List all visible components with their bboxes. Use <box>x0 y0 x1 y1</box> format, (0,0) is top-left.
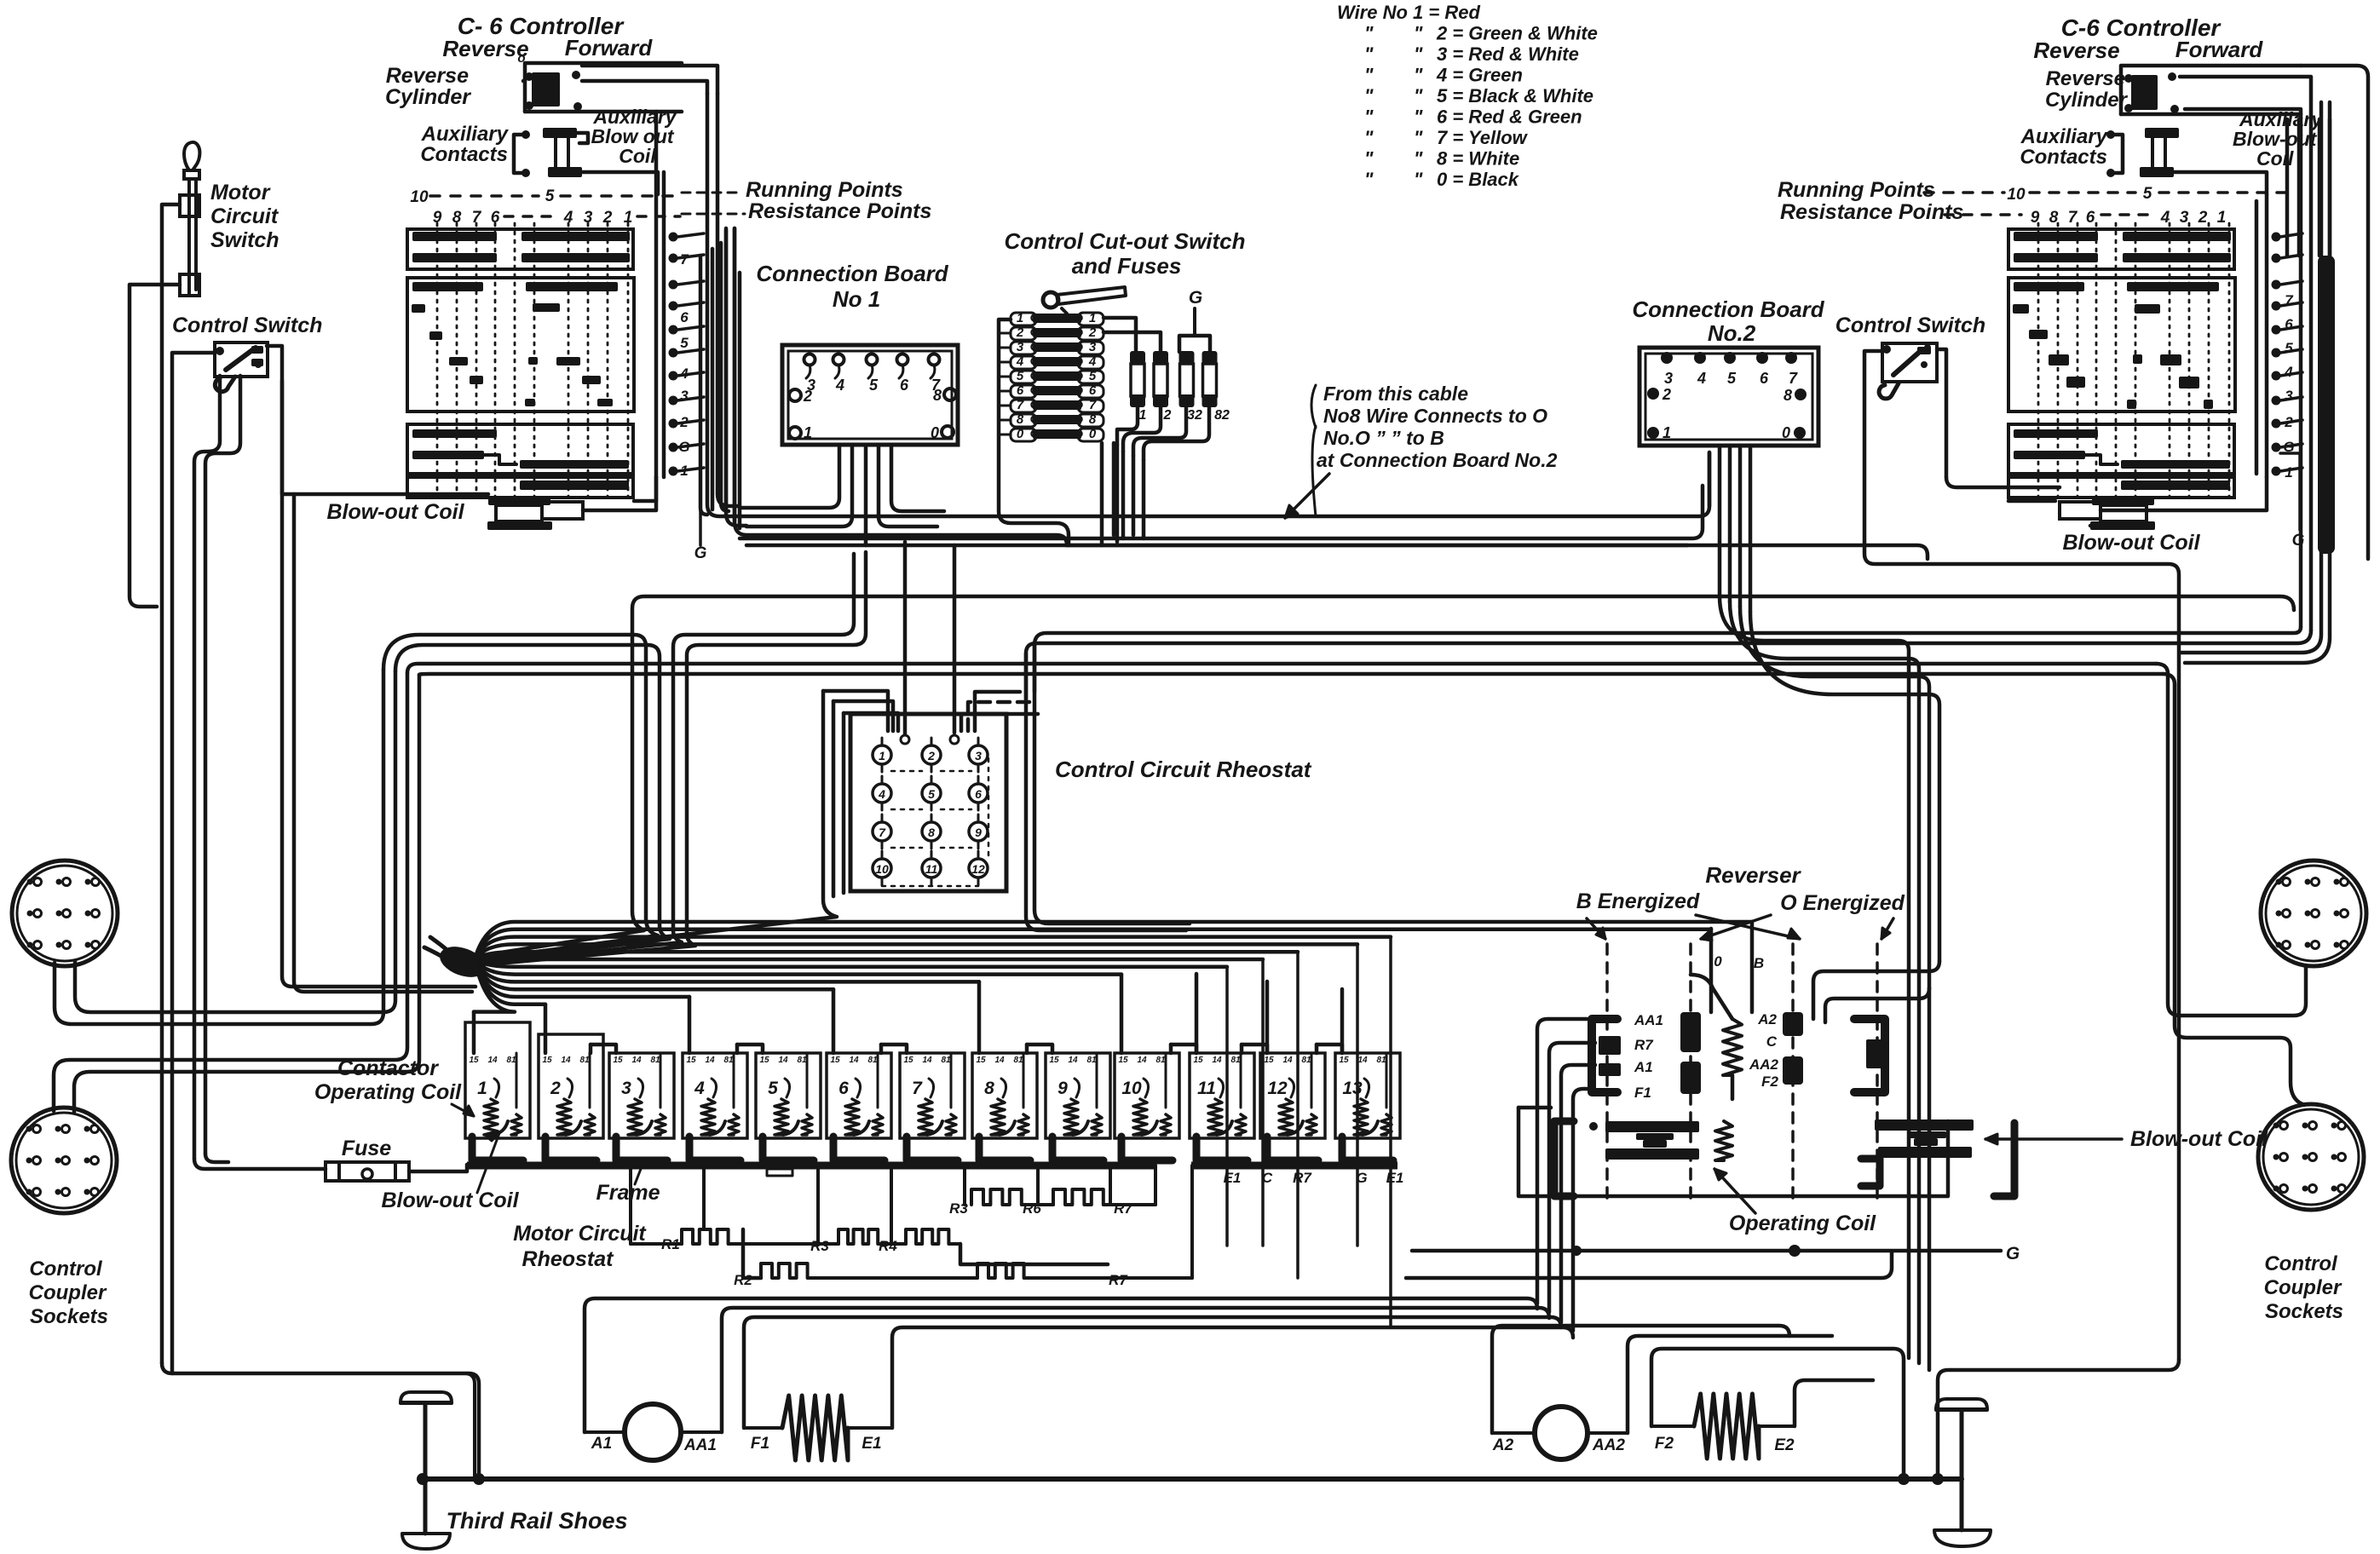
svg-text:No.2: No.2 <box>1708 320 1756 346</box>
svg-text:14: 14 <box>1282 1056 1293 1065</box>
svg-text:B: B <box>1754 955 1764 971</box>
svg-text:15: 15 <box>1049 1056 1059 1065</box>
control cable fan to contactors <box>474 922 1752 1012</box>
svg-text:": " <box>1414 169 1423 190</box>
wire from reverse cylinder to trunk (top) <box>582 66 717 94</box>
svg-text:Resistance Points: Resistance Points <box>748 199 931 223</box>
controller main contact box <box>407 278 634 412</box>
svg-text:14: 14 <box>1357 1056 1368 1065</box>
svg-text:": " <box>1364 106 1374 128</box>
svg-text:6: 6 <box>1089 383 1097 398</box>
svg-text:5: 5 <box>1727 370 1737 387</box>
wire motor switch upper clamp to left bus <box>162 204 180 1363</box>
wires cable to rheostat terminals <box>903 542 908 734</box>
svg-text:R7: R7 <box>1293 1170 1312 1186</box>
contactor 7 <box>900 1053 965 1160</box>
right controller bottom wires <box>1946 477 2060 487</box>
svg-text:1: 1 <box>804 424 812 441</box>
svg-text:1: 1 <box>1139 408 1147 423</box>
svg-text:6: 6 <box>838 1079 849 1098</box>
wire blow-out coil to frame <box>583 477 656 510</box>
main fuse <box>326 1137 409 1181</box>
svg-text:C: C <box>1766 1033 1778 1050</box>
svg-text:": " <box>1414 85 1423 106</box>
svg-text:Control: Control <box>2264 1252 2338 1275</box>
svg-text:4: 4 <box>694 1079 705 1098</box>
wires fan to reverser 0 B <box>1750 922 1755 1012</box>
third rail shoe left <box>401 1392 452 1549</box>
svg-text:and Fuses: and Fuses <box>1072 253 1182 279</box>
motor circuit rheostat label <box>513 1222 647 1271</box>
svg-text:14: 14 <box>849 1056 859 1065</box>
svg-text:": " <box>1364 169 1374 190</box>
svg-text:Reverse: Reverse <box>442 36 528 61</box>
svg-text:5: 5 <box>545 187 555 205</box>
svg-text:AA2: AA2 <box>1592 1436 1625 1454</box>
motor 2 lead risers <box>1492 1326 1904 1479</box>
control fuses <box>1130 351 1230 423</box>
contactor 10 <box>1115 1053 1179 1160</box>
reverser contacts A2 C AA2 F2 <box>1749 1011 1803 1090</box>
svg-text:Cylinder: Cylinder <box>2045 89 2129 112</box>
wires fuse bottoms to cable <box>1117 407 1209 460</box>
svg-text:": " <box>1364 23 1374 44</box>
svg-text:7 = Yellow: 7 = Yellow <box>1437 127 1529 148</box>
left trunk riser (controller cable) <box>700 228 740 528</box>
svg-text:2: 2 <box>803 388 812 405</box>
svg-text:14: 14 <box>561 1056 571 1065</box>
controller lower contact box C <box>407 424 633 474</box>
controller dashed columns <box>437 223 628 498</box>
svg-text:6: 6 <box>680 309 689 325</box>
cut-out switch handle <box>1043 287 1126 314</box>
svg-text:5: 5 <box>869 377 879 394</box>
svg-text:10: 10 <box>875 862 889 876</box>
svg-text:Contactor: Contactor <box>337 1056 439 1080</box>
right coupler sockets label <box>2264 1252 2343 1323</box>
svg-text:Resistance Points: Resistance Points <box>1780 200 1963 224</box>
left coupler socket 2 <box>11 1108 117 1213</box>
wire control switch right to contactor bank <box>267 346 475 987</box>
wire left bus to third-rail junction <box>162 1363 479 1479</box>
cut-out switch down cables <box>1100 443 1104 545</box>
right running points scale <box>1778 178 2291 227</box>
svg-text:81: 81 <box>1230 1056 1241 1065</box>
controller lower contact box D <box>407 477 633 498</box>
cable annotation note <box>1285 383 1558 518</box>
svg-text:From this cable: From this cable <box>1323 383 1468 405</box>
controller lower contact box C <box>2008 424 2234 474</box>
svg-text:Switch: Switch <box>210 228 279 252</box>
svg-text:": " <box>1414 23 1423 44</box>
svg-text:81: 81 <box>1086 1056 1097 1065</box>
svg-text:81: 81 <box>797 1056 807 1065</box>
rheostat wrap left loops <box>486 691 898 958</box>
reverser terminal labels 0 B <box>1714 953 1764 971</box>
svg-text:5: 5 <box>928 787 935 801</box>
right trunk wires from cylinder <box>2180 77 2311 630</box>
svg-text:7: 7 <box>1789 370 1798 387</box>
svg-text:32: 32 <box>1187 408 1202 423</box>
ground bus <box>417 1473 1962 1485</box>
svg-text:1: 1 <box>1663 424 1671 441</box>
svg-text:3: 3 <box>2285 388 2293 404</box>
svg-text:15: 15 <box>976 1056 986 1065</box>
contactor 8 <box>972 1053 1037 1160</box>
contactor feed drops <box>474 974 1342 1053</box>
svg-text:15: 15 <box>542 1056 552 1065</box>
left controller blow-out coil <box>326 497 583 530</box>
svg-text:": " <box>1414 127 1423 148</box>
left controller right-side enclosure wires <box>654 112 659 477</box>
reverser ground wire G <box>1412 1244 2020 1263</box>
svg-text:R7: R7 <box>1114 1200 1133 1217</box>
svg-text:5: 5 <box>2285 340 2293 356</box>
svg-text:AA2: AA2 <box>1749 1056 1779 1073</box>
svg-text:E1: E1 <box>862 1435 881 1453</box>
svg-text:0: 0 <box>931 424 939 441</box>
svg-text:15: 15 <box>759 1056 769 1065</box>
wire left risers west bundle (to knot) <box>383 635 670 961</box>
reverser label group <box>1576 862 1905 941</box>
inter-car control cable (main horizontal bundle) <box>707 94 1928 559</box>
right C-6 controller title <box>2033 14 2263 63</box>
svg-text:A2: A2 <box>1757 1011 1777 1027</box>
svg-text:Control Circuit Rheostat: Control Circuit Rheostat <box>1055 757 1312 782</box>
wires board 1 pair west to knot <box>486 552 866 964</box>
svg-text:82: 82 <box>1214 408 1230 423</box>
wires cut-out rows 1-2 to fuses 1-2 <box>1104 318 1136 354</box>
svg-text:15: 15 <box>830 1056 840 1065</box>
svg-text:Rheostat: Rheostat <box>522 1247 615 1271</box>
svg-text:": " <box>1414 43 1423 65</box>
svg-text:81: 81 <box>867 1056 878 1065</box>
reverser resistor (vertical) <box>1723 1019 1742 1075</box>
svg-text:6: 6 <box>2086 209 2095 227</box>
svg-text:6: 6 <box>1017 383 1024 398</box>
svg-text:No 1: No 1 <box>833 286 880 312</box>
contactor 3 <box>609 1053 674 1160</box>
contactor 6 <box>827 1053 891 1160</box>
svg-text:Control Cut-out Switch: Control Cut-out Switch <box>1004 228 1245 254</box>
blow-out coil label (reverser) <box>1985 1127 2268 1151</box>
svg-text:Operating Coil: Operating Coil <box>314 1080 462 1104</box>
svg-text:Blow-out Coil: Blow-out Coil <box>2130 1127 2268 1151</box>
contactor bank <box>465 1022 1400 1160</box>
svg-text:G: G <box>694 544 707 562</box>
svg-text:3: 3 <box>1017 340 1024 354</box>
svg-text:": " <box>1414 106 1423 128</box>
svg-text:F1: F1 <box>751 1435 769 1453</box>
connection board 1 cables <box>740 446 944 545</box>
svg-text:81: 81 <box>941 1056 951 1065</box>
svg-text:1: 1 <box>2217 209 2227 227</box>
inter-controller pair (couplers left to couplers right) <box>407 664 2163 675</box>
svg-text:Blow-out Coil: Blow-out Coil <box>381 1189 519 1212</box>
svg-text:Running Points: Running Points <box>746 178 903 202</box>
svg-text:3: 3 <box>680 388 689 404</box>
contactor 5 <box>756 1053 821 1160</box>
svg-text:13: 13 <box>1342 1079 1363 1098</box>
controller contact box A (running points) <box>2008 229 2234 269</box>
svg-text:": " <box>1414 148 1423 170</box>
rheostat row C (R2 R7) <box>734 1165 1192 1288</box>
svg-text:5 = Black & White: 5 = Black & White <box>1437 85 1593 106</box>
svg-text:2: 2 <box>1662 386 1671 403</box>
contactor 12 <box>1260 1053 1325 1160</box>
svg-text:8: 8 <box>984 1079 994 1098</box>
svg-text:81: 81 <box>506 1056 516 1065</box>
svg-text:E1: E1 <box>1386 1170 1404 1186</box>
fuse group G lead <box>1179 288 1210 352</box>
svg-text:Wire No 1 = Red: Wire No 1 = Red <box>1337 2 1480 23</box>
svg-text:9: 9 <box>975 826 982 839</box>
svg-text:AA1: AA1 <box>1634 1012 1663 1028</box>
svg-text:7: 7 <box>879 826 886 839</box>
svg-text:14: 14 <box>1068 1056 1078 1065</box>
right auxiliary blow-out coil <box>2140 108 2323 177</box>
svg-text:7: 7 <box>2285 292 2294 308</box>
svg-text:4: 4 <box>1016 354 1024 369</box>
svg-text:3: 3 <box>1089 340 1097 354</box>
reverser wire top resistor <box>1691 975 1732 1019</box>
connection board No 2 <box>1632 296 1824 446</box>
svg-text:6: 6 <box>900 377 909 394</box>
svg-text:5: 5 <box>2143 185 2152 203</box>
svg-text:Cylinder: Cylinder <box>385 85 471 109</box>
control switch (left) <box>172 314 322 392</box>
svg-text:G: G <box>2292 532 2305 550</box>
svg-text:5: 5 <box>680 335 689 351</box>
svg-text:5: 5 <box>768 1079 778 1098</box>
motor 2 (A2-AA2) <box>1492 1407 1628 1459</box>
svg-text:2: 2 <box>2198 209 2208 227</box>
svg-text:A1: A1 <box>591 1435 612 1453</box>
svg-text:15: 15 <box>1118 1056 1128 1065</box>
wire control switch left down <box>172 353 215 1373</box>
svg-text:81: 81 <box>1155 1056 1166 1065</box>
svg-text:8: 8 <box>933 387 942 404</box>
contactor bus bar <box>467 1165 1397 1176</box>
svg-text:81: 81 <box>1376 1056 1386 1065</box>
reverser lower drum right (blow-out coil) <box>1861 1119 2014 1196</box>
svg-text:Reverse: Reverse <box>2046 67 2125 90</box>
svg-text:7: 7 <box>680 251 689 268</box>
wire coupler 1 to junction <box>55 670 383 1024</box>
svg-text:15: 15 <box>686 1056 696 1065</box>
long control wire right switch to knot <box>479 596 2294 956</box>
controller dashed columns <box>2038 223 2229 498</box>
svg-text:14: 14 <box>1212 1056 1222 1065</box>
cable knot <box>424 937 490 983</box>
svg-text:Reverser: Reverser <box>1705 862 1801 888</box>
wire right ground to shoe <box>1938 1360 2179 1477</box>
svg-text:6 = Red & Green: 6 = Red & Green <box>1437 106 1582 128</box>
svg-text:1: 1 <box>1089 311 1096 325</box>
svg-text:4: 4 <box>2284 364 2293 380</box>
contactor 4 <box>683 1053 747 1160</box>
svg-text:2: 2 <box>550 1079 561 1098</box>
svg-text:Forward: Forward <box>565 35 654 60</box>
left auxiliary contacts <box>420 123 530 177</box>
svg-text:3 = Red & White: 3 = Red & White <box>1437 43 1579 65</box>
svg-text:Contacts: Contacts <box>420 143 508 166</box>
svg-text:Control Switch: Control Switch <box>172 314 322 337</box>
wire from aux coil to controller frame <box>582 172 658 194</box>
svg-text:15: 15 <box>1264 1056 1274 1065</box>
svg-text:Blow-out Coil: Blow-out Coil <box>2062 531 2200 555</box>
controller contact box A (running points) <box>407 229 633 269</box>
svg-text:Operating Coil: Operating Coil <box>1729 1212 1876 1235</box>
field resistor F1-E1 <box>744 1396 892 1460</box>
controller lower contact box D <box>2008 477 2234 498</box>
svg-text:0: 0 <box>1089 427 1097 441</box>
controller main contact box <box>2008 278 2235 412</box>
frame label <box>596 1169 660 1205</box>
svg-text:": " <box>1414 65 1423 86</box>
svg-text:81: 81 <box>579 1056 590 1065</box>
svg-text:4: 4 <box>878 787 885 801</box>
svg-text:8: 8 <box>1784 387 1792 404</box>
blow-out coil label (contactors) <box>381 1133 519 1212</box>
svg-text:3: 3 <box>2180 209 2189 227</box>
svg-text:15: 15 <box>1339 1056 1349 1065</box>
contactor 11 <box>1190 1053 1254 1160</box>
wire fuse to contactor bus <box>409 1165 467 1171</box>
svg-text:8: 8 <box>1089 412 1097 427</box>
wires motor leads to reverser left fingers <box>1537 1019 1595 1331</box>
svg-text:Motor: Motor <box>210 181 271 204</box>
svg-text:R7: R7 <box>1634 1037 1654 1053</box>
svg-text:Connection Board: Connection Board <box>756 261 948 286</box>
svg-text:11: 11 <box>1197 1079 1216 1098</box>
reverser lower drum left (operating coil and contacts) <box>1554 1121 1732 1196</box>
svg-text:R4: R4 <box>879 1238 897 1254</box>
svg-text:0: 0 <box>1714 953 1722 970</box>
svg-text:2: 2 <box>1088 325 1097 340</box>
contactor 1 <box>465 1022 530 1160</box>
left coupler socket 1 <box>12 860 118 966</box>
left controller dashed point scale <box>410 187 680 227</box>
svg-text:81: 81 <box>1301 1056 1311 1065</box>
reverser base frame <box>1406 1108 1948 1278</box>
svg-text:81: 81 <box>723 1056 734 1065</box>
svg-text:14: 14 <box>994 1056 1005 1065</box>
svg-text:15: 15 <box>613 1056 623 1065</box>
svg-text:9: 9 <box>1057 1079 1068 1098</box>
svg-text:2: 2 <box>927 749 935 763</box>
svg-text:": " <box>1364 43 1374 65</box>
svg-text:14: 14 <box>631 1056 642 1065</box>
right auxiliary contacts <box>2020 125 2123 177</box>
svg-text:2: 2 <box>1016 325 1024 340</box>
svg-text:2: 2 <box>679 414 689 430</box>
svg-text:6: 6 <box>1760 370 1769 387</box>
svg-text:": " <box>1364 85 1374 106</box>
motor circuit switch <box>180 142 279 296</box>
svg-text:5: 5 <box>1089 369 1097 383</box>
svg-text:14: 14 <box>705 1056 715 1065</box>
svg-text:1: 1 <box>2285 464 2292 481</box>
right control switch wires <box>1864 351 2179 1360</box>
svg-text:Coil: Coil <box>619 145 656 167</box>
svg-text:10: 10 <box>2007 186 2026 204</box>
svg-text:4: 4 <box>835 377 844 394</box>
wire fuse riser to fuse <box>194 1159 326 1169</box>
svg-text:15: 15 <box>903 1056 913 1065</box>
wire colour legend <box>1337 2 1598 190</box>
svg-text:Connection Board: Connection Board <box>1632 296 1824 322</box>
svg-text:8: 8 <box>928 826 935 839</box>
svg-text:A2: A2 <box>1492 1436 1514 1454</box>
svg-text:12: 12 <box>971 862 985 876</box>
svg-text:15: 15 <box>1193 1056 1203 1065</box>
reverser left finger group (AA1 R7 A1 F1) <box>1592 1012 1663 1101</box>
wire control switch to fuse risers <box>194 376 220 1159</box>
svg-text:Auxiliary: Auxiliary <box>2020 125 2109 148</box>
control switch (right) <box>1835 314 1985 399</box>
svg-text:Coupler: Coupler <box>2264 1276 2343 1299</box>
wire coupler 2 to junction <box>54 673 407 1111</box>
svg-text:F2: F2 <box>1761 1073 1778 1090</box>
svg-text:2: 2 <box>1163 408 1172 423</box>
left C-6 controller title <box>442 13 653 61</box>
svg-text:0: 0 <box>1017 427 1024 441</box>
svg-text:4: 4 <box>1697 370 1706 387</box>
wires right couplers to risers <box>2156 664 2306 1104</box>
svg-text:Reverse: Reverse <box>2033 37 2119 63</box>
svg-text:Frame: Frame <box>596 1181 660 1205</box>
board 2 to reverser east bundle <box>1720 596 1939 1363</box>
left reverse cylinder <box>385 51 682 112</box>
wire control-switch to blow-out coil <box>282 381 488 494</box>
svg-text:No.O ” ” to: No.O ” ” to B <box>1323 427 1444 449</box>
contactor 2 <box>539 1034 603 1160</box>
wire motor switch lower clamp down <box>130 285 180 607</box>
svg-text:10: 10 <box>410 188 429 206</box>
connection board 2 cables <box>1709 447 1750 612</box>
right controller enclosure wires <box>2265 194 2269 477</box>
svg-text:1: 1 <box>680 463 688 479</box>
svg-text:81: 81 <box>650 1056 660 1065</box>
control circuit rheostat body <box>850 714 1006 891</box>
svg-text:3: 3 <box>975 749 982 763</box>
svg-text:4 = Green: 4 = Green <box>1436 65 1523 86</box>
left controller contact dot column <box>669 233 705 480</box>
svg-text:Reverse: Reverse <box>386 64 469 88</box>
reverser middle contacts on line 2 <box>1680 1012 1701 1094</box>
svg-text:Sockets: Sockets <box>30 1305 108 1328</box>
svg-text:81: 81 <box>1013 1056 1023 1065</box>
svg-text:14: 14 <box>1137 1056 1147 1065</box>
wire right aux coil <box>2174 172 2267 194</box>
svg-text:R7: R7 <box>1109 1272 1128 1288</box>
svg-text:Coupler: Coupler <box>29 1281 107 1304</box>
right trunk bundle to rheostat wrap <box>1026 102 2330 699</box>
svg-text:Control: Control <box>29 1258 103 1281</box>
svg-text:4: 4 <box>1088 354 1097 369</box>
svg-text:0: 0 <box>1782 424 1790 441</box>
svg-text:at Connection Board No.2: at Connection Board No.2 <box>1317 449 1558 471</box>
svg-text:A1: A1 <box>1634 1059 1653 1075</box>
connection board No 1 <box>756 261 958 445</box>
right coupler socket 2 <box>2258 1104 2364 1210</box>
svg-text:15: 15 <box>469 1056 479 1065</box>
svg-text:11: 11 <box>925 862 938 876</box>
node G below right controller <box>2280 453 2305 550</box>
svg-text:4: 4 <box>679 365 689 382</box>
reverser nested feed wires (from board 2) <box>1813 961 1939 1022</box>
